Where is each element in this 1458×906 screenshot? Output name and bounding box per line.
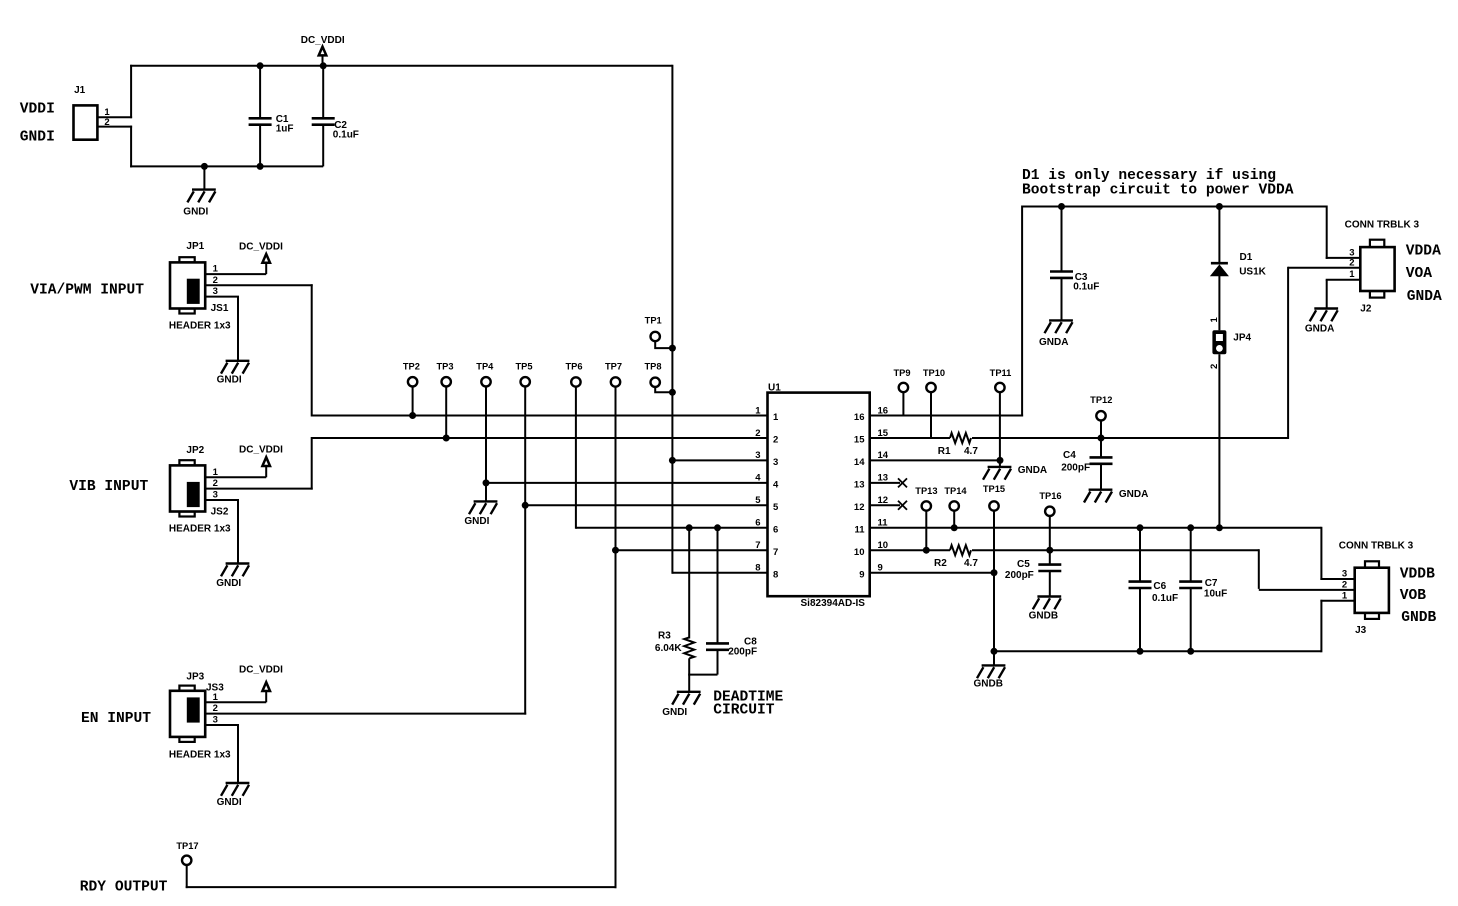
wire VOB vertical — [1258, 549, 1260, 589]
connector J1 VDDI/GNDI input — [74, 105, 98, 139]
svg-text:TP17: TP17 — [176, 841, 198, 851]
svg-text:HEADER 1x3: HEADER 1x3 — [169, 749, 231, 760]
no-connect X pin12 — [898, 501, 907, 510]
wire C3 bottom lead — [1061, 278, 1063, 321]
connector J2 terminal block — [1360, 240, 1394, 298]
connector JP3 header — [179, 686, 194, 691]
svg-text:TP12: TP12 — [1090, 395, 1112, 405]
wire U1 pin8 net from DC_VDDI vertical — [672, 572, 767, 574]
junction C7 pin11 net — [1187, 524, 1194, 531]
svg-text:C4: C4 — [1063, 450, 1076, 461]
svg-text:C5: C5 — [1017, 559, 1030, 570]
wire R3 top lead — [688, 528, 690, 639]
svg-text:CONN TRBLK 3: CONN TRBLK 3 — [1345, 219, 1420, 230]
test point TP16 — [1045, 507, 1054, 516]
svg-text:13: 13 — [854, 479, 865, 490]
wire U1 pin1 net VIA — [312, 415, 768, 417]
test point TP3 — [442, 377, 451, 386]
no-connect X pin13 — [898, 478, 907, 487]
wire C1 top lead — [259, 66, 261, 119]
junction pin3 net on DC_VDDI vertical — [669, 457, 676, 464]
wire J3 pin3 vertical to pin11 net — [1320, 527, 1322, 580]
svg-text:CIRCUIT: CIRCUIT — [713, 702, 775, 718]
svg-text:1: 1 — [213, 264, 219, 275]
jumper JP4 — [1212, 330, 1226, 354]
wire U1 pin10 net VOB left — [870, 549, 950, 551]
svg-text:1: 1 — [1342, 590, 1348, 601]
wire D1 cathode lead — [1218, 207, 1220, 264]
power symbol DC_VDDI JP2 — [262, 457, 270, 477]
svg-text:11: 11 — [854, 524, 865, 535]
svg-text:GNDA: GNDA — [1039, 337, 1068, 348]
svg-text:TP11: TP11 — [990, 368, 1012, 378]
svg-text:4.7: 4.7 — [964, 558, 978, 569]
ground GNDI JP2 — [221, 500, 249, 576]
svg-text:JP3: JP3 — [186, 672, 204, 683]
test point TP2 — [408, 377, 417, 386]
wire J3 pin2 stub VOB — [1259, 589, 1355, 591]
svg-text:GNDI: GNDI — [662, 707, 687, 718]
svg-text:GNDB: GNDB — [1401, 610, 1436, 626]
junction C7 GNDB rail — [1187, 648, 1194, 655]
svg-text:2: 2 — [773, 435, 778, 446]
wire TP9 stem — [902, 392, 904, 415]
svg-text:DC_VDDI: DC_VDDI — [239, 665, 283, 676]
wire TP7 stem to RDY net — [615, 387, 617, 889]
wire U1 pin16 net VDDA — [870, 415, 1023, 417]
power symbol DC_VDDI JP3 — [262, 682, 270, 702]
junction TP14 pin11 net — [951, 524, 958, 531]
ground GNDA TP11 — [983, 467, 1011, 480]
svg-text:TP7: TP7 — [605, 362, 622, 372]
test point TP9 — [899, 383, 908, 392]
wire J3 pin3 stub — [1320, 578, 1354, 580]
wire TP12 stem — [1100, 421, 1102, 458]
connector JP2 header — [179, 460, 194, 465]
svg-text:200pF: 200pF — [728, 647, 757, 658]
svg-text:VDDB: VDDB — [1400, 566, 1435, 582]
wire J1 pin2 to bottom rail — [130, 126, 132, 168]
junction bottom rail GNDI stem — [201, 163, 208, 170]
svg-text:Si82394AD-IS: Si82394AD-IS — [801, 598, 866, 609]
capacitor C8 — [706, 643, 729, 649]
wire TP6 stem — [575, 387, 577, 529]
svg-text:U1: U1 — [768, 383, 781, 394]
svg-text:3: 3 — [213, 715, 218, 726]
svg-text:GNDI: GNDI — [464, 516, 489, 527]
svg-text:TP4: TP4 — [476, 362, 494, 372]
junction TP15 pin9 net — [991, 569, 998, 576]
wire U1 pin7 net from TP7 — [616, 549, 768, 551]
diode D1 symbol — [1211, 263, 1228, 276]
resistor R1 — [950, 433, 971, 443]
svg-text:2: 2 — [1342, 579, 1347, 590]
svg-text:VDDI: VDDI — [20, 102, 55, 118]
wire R3-C8 bottom link — [688, 674, 717, 676]
svg-text:GNDI: GNDI — [217, 375, 242, 386]
wire U1 pin9 net GNDB — [870, 572, 994, 574]
junction C8 on pin6 net — [714, 524, 721, 531]
wire C8 bottom lead — [717, 650, 719, 675]
wire D1 anode to JP4 — [1218, 276, 1220, 331]
svg-text:TP13: TP13 — [915, 486, 937, 496]
test point TP14 — [950, 501, 959, 510]
op-amp U1 Si82394AD-IS body — [768, 393, 870, 597]
svg-text:TP16: TP16 — [1039, 491, 1061, 501]
wire TP17 stem — [186, 865, 188, 888]
svg-text:DC_VDDI: DC_VDDI — [301, 35, 345, 46]
wire JP2 pin2 vertical — [311, 437, 313, 490]
svg-text:GNDA: GNDA — [1119, 489, 1148, 500]
wire DC_VDDI vertical to pin8 — [671, 65, 673, 574]
svg-text:DC_VDDI: DC_VDDI — [239, 444, 283, 455]
svg-text:JP2: JP2 — [186, 445, 204, 456]
svg-text:C6: C6 — [1153, 581, 1166, 592]
svg-text:1: 1 — [213, 692, 219, 703]
wire J2 pin2 stub VOA — [1288, 267, 1360, 269]
wire U1 pin6 net deadtime — [576, 527, 768, 529]
ground GNDI TP4 — [469, 501, 497, 514]
wire TP13 stem — [925, 511, 927, 551]
svg-text:VDDA: VDDA — [1406, 243, 1441, 259]
wire JP2 pin2 stub — [205, 488, 313, 490]
ground GNDA J2 — [1310, 280, 1338, 322]
capacitor C2 — [312, 118, 335, 124]
wire J2 pin3 vertical to VDDA rail — [1326, 206, 1328, 259]
wire VOA vertical — [1287, 267, 1289, 439]
svg-text:1uF: 1uF — [276, 124, 294, 135]
wire U1 pin5 net from TP5 — [525, 504, 767, 506]
ground GNDA C4 — [1084, 490, 1112, 503]
svg-text:J1: J1 — [74, 85, 86, 96]
svg-text:GNDI: GNDI — [20, 130, 55, 146]
svg-text:GNDI: GNDI — [217, 797, 242, 808]
svg-text:JP1: JP1 — [186, 241, 204, 252]
svg-text:2: 2 — [755, 428, 760, 439]
wire TP2 stem — [412, 387, 414, 416]
wire C6 top lead — [1139, 528, 1141, 582]
junction TP5 on pin5 net — [522, 502, 529, 509]
junction TP3 on pin2 net — [443, 435, 450, 442]
wire TP10 stem — [930, 392, 932, 438]
svg-text:GNDA: GNDA — [1305, 324, 1334, 335]
svg-text:12: 12 — [854, 502, 865, 513]
test point TP6 — [571, 377, 580, 386]
wire J2 pin3 stub — [1326, 257, 1361, 259]
svg-text:1: 1 — [755, 405, 761, 416]
wire U1 pin11 net VDDB — [870, 527, 1322, 529]
svg-text:R3: R3 — [658, 631, 671, 642]
svg-text:7: 7 — [773, 547, 778, 558]
svg-text:TP5: TP5 — [515, 362, 532, 372]
junction top rail C1 — [257, 62, 264, 69]
svg-text:J2: J2 — [1360, 304, 1372, 315]
svg-text:8: 8 — [773, 569, 778, 580]
wire U1 pin3 net from DC_VDDI vertical — [672, 459, 767, 461]
wire TP16 stem — [1049, 516, 1051, 565]
wire JP4 to pin11 net — [1218, 354, 1220, 528]
svg-text:CONN TRBLK 3: CONN TRBLK 3 — [1339, 540, 1414, 551]
svg-text:GNDA: GNDA — [1407, 289, 1442, 305]
wire C2 bottom lead — [322, 125, 324, 167]
wire JP3 pin3 stub — [205, 724, 239, 726]
test point TP7 — [611, 377, 620, 386]
wire C2 top lead — [322, 66, 324, 119]
test point TP11 — [995, 383, 1004, 392]
wire GNDB rail — [994, 650, 1321, 652]
test point TP17 — [182, 856, 191, 865]
test point TP10 — [926, 383, 935, 392]
wire TP1 hook to DC_VDDI vertical — [655, 341, 672, 348]
svg-text:5: 5 — [755, 495, 761, 506]
svg-text:3: 3 — [773, 457, 778, 468]
junction TP13 pin10 net — [923, 547, 930, 554]
junction TP7 on pin7 net — [612, 547, 619, 554]
wire R3 bottom lead — [688, 658, 690, 692]
connector J3 terminal block — [1355, 561, 1389, 619]
junction C6 pin11 net — [1137, 524, 1144, 531]
capacitor C5 — [1038, 565, 1061, 571]
wire JP1 pin3 stub — [205, 296, 239, 298]
svg-text:2: 2 — [213, 703, 218, 714]
junction bottom rail C1 — [257, 163, 264, 170]
ground GNDB C5 — [1033, 597, 1061, 610]
test point TP8 — [651, 378, 660, 387]
svg-text:D1: D1 — [1240, 252, 1253, 263]
svg-text:GNDB: GNDB — [1029, 610, 1058, 621]
svg-text:HEADER 1x3: HEADER 1x3 — [169, 524, 231, 535]
svg-text:VIA/PWM INPUT: VIA/PWM INPUT — [30, 282, 144, 298]
svg-text:HEADER 1x3: HEADER 1x3 — [169, 320, 231, 331]
svg-text:0.1uF: 0.1uF — [333, 130, 359, 141]
svg-text:DC_VDDI: DC_VDDI — [239, 241, 283, 252]
svg-text:14: 14 — [854, 457, 865, 468]
svg-text:6: 6 — [755, 518, 760, 529]
wire JP2 pin3 stub — [205, 499, 239, 501]
wire C1 bottom lead — [259, 125, 261, 167]
junction TP2 on pin1 net — [409, 412, 416, 419]
test point TP12 — [1096, 411, 1105, 420]
wire U1 pin4 net from TP4 — [486, 482, 768, 484]
wire JP1 pin2 vertical — [311, 284, 313, 416]
svg-text:1: 1 — [213, 467, 219, 478]
svg-text:TP3: TP3 — [436, 362, 453, 372]
svg-text:4: 4 — [755, 473, 761, 484]
wire U1 pin14 net GNDA — [870, 459, 1000, 461]
svg-text:VIB INPUT: VIB INPUT — [69, 479, 148, 495]
svg-text:200pF: 200pF — [1005, 570, 1034, 581]
power symbol DC_VDDI top — [319, 47, 327, 66]
wire pin16 net vertical to VDDA rail — [1021, 206, 1023, 417]
wire GNDI bottom rail — [130, 165, 323, 167]
wire J3 pin1 stub — [1320, 600, 1354, 602]
svg-text:JP4: JP4 — [1233, 332, 1251, 343]
wire TP11 stem — [999, 392, 1001, 467]
wire JP3 pin2 stub to TP5 vertical — [205, 713, 526, 715]
wire C3 top lead — [1061, 207, 1063, 272]
test point TP5 — [521, 377, 530, 386]
svg-text:2: 2 — [213, 478, 218, 489]
junction VDDA rail D1 — [1216, 203, 1223, 210]
junction TP16 pin10 net — [1046, 547, 1053, 554]
svg-text:0.1uF: 0.1uF — [1073, 281, 1099, 292]
svg-text:TP15: TP15 — [983, 484, 1005, 494]
ground GNDI JP3 — [221, 725, 249, 796]
svg-text:10uF: 10uF — [1204, 589, 1227, 600]
wire J1 pin1 stub — [97, 116, 132, 118]
wire TP5 stem to EN net — [524, 387, 526, 715]
junction TP1 on DC_VDDI vertical — [669, 345, 676, 352]
wire JP2 pin1 stub — [205, 476, 266, 478]
svg-text:JS2: JS2 — [211, 506, 229, 517]
wire U1 pin15 net VOA right — [972, 437, 1288, 439]
svg-text:GNDI: GNDI — [216, 578, 241, 589]
resistor R3 — [684, 637, 694, 658]
capacitor C7 — [1179, 582, 1202, 588]
svg-text:3: 3 — [755, 450, 760, 461]
junction TP12 pin15 net — [1098, 435, 1105, 442]
svg-text:7: 7 — [755, 540, 760, 551]
svg-text:TP10: TP10 — [923, 368, 945, 378]
wire DC_VDDI top rail — [130, 65, 672, 67]
svg-text:200pF: 200pF — [1061, 462, 1090, 473]
svg-text:3: 3 — [213, 490, 218, 501]
wire JP3 pin1 stub — [205, 701, 266, 703]
junction R3 on pin6 net — [686, 524, 693, 531]
svg-text:4.7: 4.7 — [964, 446, 978, 457]
capacitor C6 — [1129, 582, 1152, 588]
capacitor C1 — [249, 118, 272, 124]
svg-text:TP14: TP14 — [944, 486, 967, 496]
svg-text:JS1: JS1 — [211, 303, 229, 314]
svg-text:16: 16 — [854, 412, 865, 423]
svg-text:4: 4 — [773, 479, 779, 490]
svg-text:GNDB: GNDB — [974, 678, 1003, 689]
svg-text:6.04K: 6.04K — [655, 643, 682, 654]
wire J3 pin1 vertical to GNDB rail — [1320, 600, 1322, 653]
svg-text:5: 5 — [773, 502, 779, 513]
svg-text:C7: C7 — [1205, 578, 1218, 589]
svg-text:15: 15 — [854, 435, 865, 446]
svg-text:TP1: TP1 — [645, 316, 662, 326]
svg-text:R1: R1 — [938, 446, 951, 457]
wire JP1 pin2 stub — [205, 284, 313, 286]
wire RDY net horizontal — [186, 886, 617, 888]
svg-text:TP9: TP9 — [893, 368, 910, 378]
connector JP1 header — [179, 257, 194, 262]
wire JP1 pin1 stub — [205, 273, 266, 275]
svg-text:3: 3 — [1342, 569, 1347, 580]
svg-text:R2: R2 — [934, 558, 947, 569]
test point TP13 — [922, 501, 931, 510]
junction top rail C2/DC_VDDI — [320, 62, 327, 69]
svg-text:2: 2 — [1349, 257, 1354, 268]
svg-text:2: 2 — [1209, 364, 1220, 369]
svg-text:3: 3 — [213, 286, 218, 297]
wire C7 bottom lead — [1190, 588, 1192, 651]
svg-text:2: 2 — [213, 275, 218, 286]
wire J2 pin1 stub — [1326, 279, 1361, 281]
wire U1 pin13 stub — [870, 482, 900, 484]
svg-text:1: 1 — [773, 412, 779, 423]
svg-text:TP8: TP8 — [644, 361, 661, 371]
svg-text:J3: J3 — [1355, 625, 1367, 636]
wire U1 pin15 net VOA left — [870, 437, 950, 439]
svg-text:TP6: TP6 — [565, 362, 582, 372]
wire RDY net vertical to TP7 — [615, 550, 617, 888]
wire C5 bottom lead — [1049, 571, 1051, 597]
junction TP4 on pin4 net — [483, 479, 490, 486]
svg-text:1: 1 — [1349, 269, 1355, 280]
junction JP4 pin11 net — [1216, 524, 1223, 531]
wire TP4 stem — [485, 387, 487, 502]
wire J1 pin1 to top rail — [130, 65, 132, 118]
power symbol DC_VDDI JP1 — [262, 254, 270, 274]
svg-text:Bootstrap circuit to power VDD: Bootstrap circuit to power VDDA — [1022, 182, 1294, 198]
svg-text:VOA: VOA — [1406, 266, 1433, 282]
junction TP11 pin14 net — [997, 457, 1004, 464]
wire C6 bottom lead — [1139, 588, 1141, 651]
junction TP8 on DC_VDDI vertical — [669, 389, 676, 396]
test point TP1 — [651, 332, 660, 341]
wire TP14 stem — [953, 511, 955, 528]
ground GNDI under J1 rail — [187, 166, 215, 202]
ground GNDI JP1 — [221, 297, 249, 374]
wire TP3 stem — [445, 387, 447, 439]
test point TP15 — [989, 501, 998, 510]
svg-text:1: 1 — [1209, 317, 1220, 323]
wire C7 top lead — [1190, 528, 1192, 582]
capacitor C4 — [1090, 457, 1113, 463]
wire VDDA top rail — [1022, 206, 1327, 208]
svg-text:US1K: US1K — [1239, 267, 1266, 278]
wire J1 pin2 stub — [97, 126, 132, 128]
svg-text:GNDA: GNDA — [1018, 465, 1047, 476]
wire C4 bottom lead — [1100, 464, 1102, 490]
svg-text:RDY OUTPUT: RDY OUTPUT — [80, 879, 168, 895]
wire U1 pin12 stub — [870, 504, 900, 506]
svg-text:VOB: VOB — [1400, 588, 1427, 604]
junction VDDA rail C3 — [1058, 203, 1065, 210]
wire TP8 hook to DC_VDDI vertical — [655, 387, 672, 392]
svg-text:EN INPUT: EN INPUT — [81, 711, 151, 727]
svg-text:TP2: TP2 — [403, 362, 420, 372]
test point TP4 — [481, 377, 490, 386]
ground GNDA C3 — [1045, 320, 1073, 333]
svg-text:6: 6 — [773, 524, 778, 535]
ground GNDB TP15 — [977, 665, 1005, 678]
svg-text:8: 8 — [755, 562, 760, 573]
svg-text:10: 10 — [854, 547, 865, 558]
svg-text:9: 9 — [859, 569, 864, 580]
wire U1 pin2 net VIB — [312, 437, 768, 439]
svg-text:0.1uF: 0.1uF — [1152, 593, 1178, 604]
junction TP15 GNDB rail — [991, 648, 998, 655]
wire TP15 stem to GNDB rail — [993, 511, 995, 666]
ground GNDI deadtime — [672, 692, 700, 705]
svg-text:GNDI: GNDI — [183, 206, 208, 217]
wire U1 pin10 net VOB right — [972, 549, 1259, 551]
resistor R2 — [950, 545, 971, 555]
wire C8 top lead — [717, 528, 719, 644]
capacitor C3 — [1050, 272, 1073, 278]
junction C6 GNDB rail — [1137, 648, 1144, 655]
